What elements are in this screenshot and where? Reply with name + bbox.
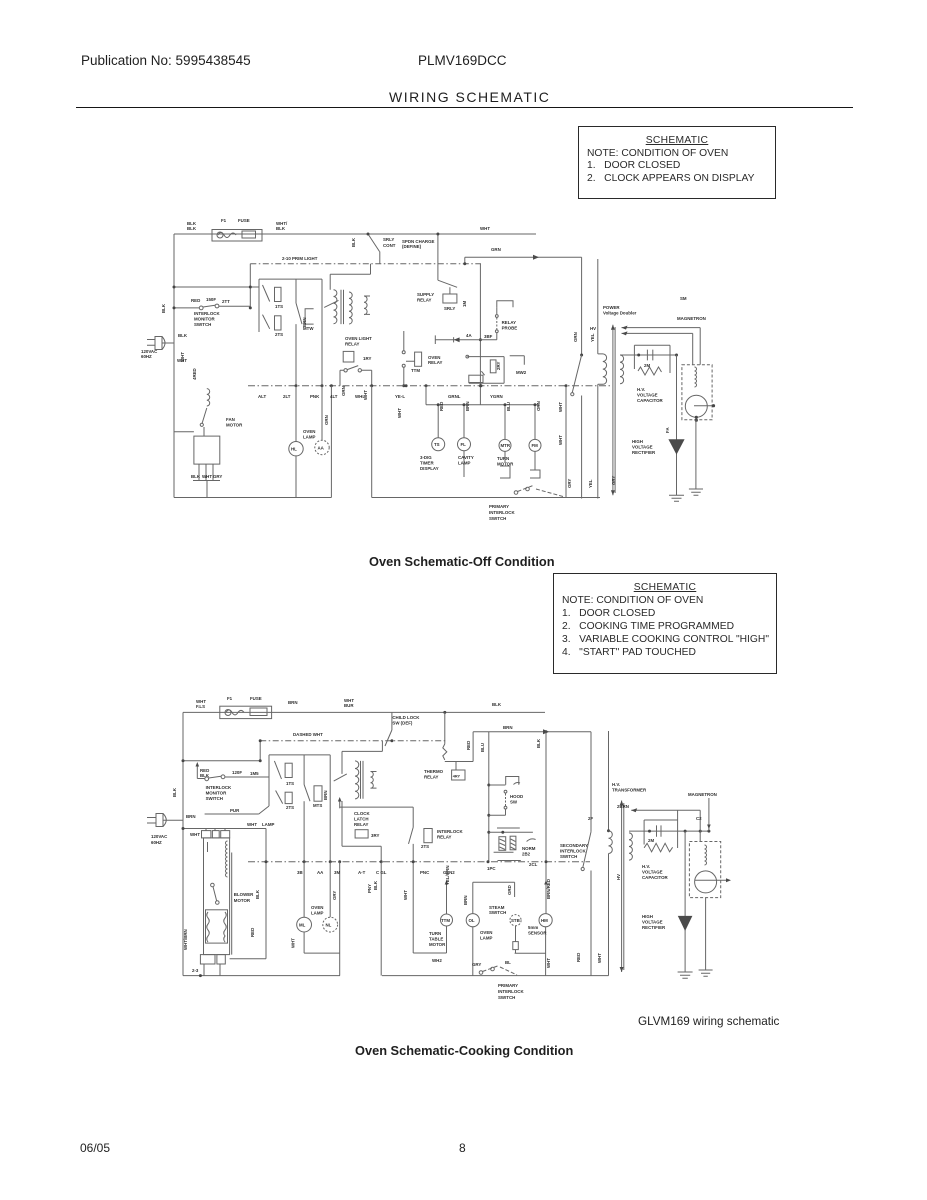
svg-text:OVEN: OVEN	[480, 930, 492, 935]
svg-text:HM: HM	[541, 918, 548, 923]
svg-text:BUR: BUR	[344, 703, 354, 708]
svg-text:INTERLOCK: INTERLOCK	[206, 785, 232, 790]
svg-text:WHT: WHT	[546, 958, 551, 968]
svg-text:RELAY: RELAY	[502, 320, 517, 325]
svg-text:HIGH: HIGH	[632, 439, 643, 444]
svg-text:TS: TS	[434, 442, 440, 447]
svg-text:ML: ML	[299, 923, 306, 928]
svg-text:TURN: TURN	[497, 456, 509, 461]
svg-text:2B2: 2B2	[522, 852, 531, 857]
svg-text:Voltage Doubler: Voltage Doubler	[603, 311, 637, 316]
svg-text:RELAY: RELAY	[437, 835, 452, 840]
svg-text:(DEFINE): (DEFINE)	[402, 244, 422, 249]
svg-text:MW2: MW2	[516, 370, 527, 375]
svg-text:2BRN: 2BRN	[617, 804, 629, 809]
svg-text:MONITOR: MONITOR	[194, 317, 215, 322]
svg-text:HIGH: HIGH	[642, 914, 653, 919]
svg-text:GRD: GRD	[507, 885, 512, 895]
svg-text:OVEN: OVEN	[303, 429, 315, 434]
svg-text:LAMP: LAMP	[303, 435, 316, 440]
svg-text:MAGNETRON: MAGNETRON	[688, 792, 717, 797]
svg-text:INTERLOCK: INTERLOCK	[498, 989, 524, 994]
svg-text:TTM: TTM	[411, 368, 420, 373]
svg-text:TTM: TTM	[441, 918, 450, 923]
svg-text:3RY: 3RY	[371, 833, 379, 838]
svg-text:CONT: CONT	[383, 243, 396, 248]
svg-text:MOTOR: MOTOR	[429, 942, 446, 947]
svg-text:SWITCH: SWITCH	[498, 995, 515, 1000]
svg-text:RED: RED	[466, 741, 471, 750]
svg-text:4LT: 4LT	[330, 394, 338, 399]
svg-text:BLOWER: BLOWER	[234, 892, 254, 897]
svg-text:RECTIFIER: RECTIFIER	[632, 450, 656, 455]
svg-text:YE-L: YE-L	[395, 394, 405, 399]
svg-text:SWITCH: SWITCH	[489, 516, 506, 521]
svg-text:4A: 4A	[466, 333, 472, 338]
svg-text:CAPACITOR: CAPACITOR	[642, 875, 669, 880]
svg-text:RED: RED	[576, 953, 581, 962]
svg-text:WHT: WHT	[291, 938, 296, 948]
svg-text:GRN: GRN	[341, 386, 346, 396]
svg-text:2RY: 2RY	[496, 362, 501, 370]
svg-text:2TT: 2TT	[222, 299, 230, 304]
svg-text:ORN: ORN	[536, 401, 541, 411]
svg-text:FAN: FAN	[226, 417, 235, 422]
svg-text:INTERLOCK: INTERLOCK	[489, 510, 515, 515]
svg-text:LAMP: LAMP	[262, 822, 275, 827]
svg-text:CLOCK: CLOCK	[354, 811, 370, 816]
svg-text:SWITCH: SWITCH	[560, 854, 577, 859]
svg-text:TURN: TURN	[429, 931, 441, 936]
svg-text:BLK: BLK	[191, 474, 201, 479]
svg-text:WH2: WH2	[432, 958, 442, 963]
svg-text:MOTOR: MOTOR	[234, 898, 251, 903]
svg-text:LATCH: LATCH	[354, 817, 369, 822]
svg-text:1RY: 1RY	[363, 356, 371, 361]
svg-text:CAPACITOR: CAPACITOR	[637, 398, 664, 403]
svg-text:FM: FM	[532, 443, 539, 448]
svg-text:POWER: POWER	[603, 305, 620, 310]
svg-text:MTS: MTS	[313, 803, 322, 808]
svg-text:SENSOR: SENSOR	[528, 931, 547, 936]
svg-text:RELAY: RELAY	[417, 298, 432, 303]
svg-text:CHILD LOCK: CHILD LOCK	[392, 715, 420, 720]
svg-text:F1: F1	[221, 218, 227, 223]
svg-text:PRIMARY: PRIMARY	[498, 983, 518, 988]
svg-text:3M: 3M	[334, 870, 340, 875]
svg-text:INTERLOCK: INTERLOCK	[437, 829, 463, 834]
svg-text:VOLTAGE: VOLTAGE	[632, 445, 653, 450]
svg-text:WHT: WHT	[202, 474, 212, 479]
svg-text:SWITCH: SWITCH	[206, 796, 223, 801]
svg-text:BLK: BLK	[161, 303, 166, 313]
svg-text:120VAC: 120VAC	[151, 834, 168, 839]
svg-text:SRLY: SRLY	[444, 306, 455, 311]
svg-text:H.V.: H.V.	[637, 387, 645, 392]
svg-text:RECTIFIER: RECTIFIER	[642, 925, 666, 930]
svg-text:CAVITY: CAVITY	[458, 455, 474, 460]
svg-text:2-3: 2-3	[192, 968, 199, 973]
svg-text:SWITCH: SWITCH	[489, 910, 506, 915]
svg-text:RED: RED	[191, 298, 200, 303]
svg-text:3BF: 3BF	[484, 334, 493, 339]
svg-text:VOLTAGE: VOLTAGE	[642, 870, 663, 875]
svg-text:GRY: GRY	[332, 891, 337, 900]
svg-text:SW (DEF): SW (DEF)	[392, 721, 413, 726]
svg-text:BRN: BRN	[186, 814, 196, 819]
svg-text:FUSE: FUSE	[250, 696, 262, 701]
svg-text:PNY: PNY	[367, 884, 372, 893]
svg-text:GRN: GRN	[324, 415, 329, 425]
svg-text:2F: 2F	[588, 816, 593, 821]
svg-text:MTR: MTR	[501, 443, 511, 448]
svg-text:WHL: WHL	[355, 394, 365, 399]
svg-text:H.V.: H.V.	[612, 782, 620, 787]
svg-text:2CL: 2CL	[529, 862, 538, 867]
svg-text:120F: 120F	[232, 770, 242, 775]
svg-text:MAGNETRON: MAGNETRON	[677, 316, 706, 321]
svg-text:BLU: BLU	[480, 743, 485, 752]
svg-text:5mm: 5mm	[528, 925, 538, 930]
svg-text:60HZ: 60HZ	[141, 354, 152, 359]
svg-text:TIMER: TIMER	[420, 461, 434, 466]
svg-text:YEL: YEL	[590, 333, 595, 342]
svg-text:SECONDARY: SECONDARY	[560, 843, 588, 848]
svg-text:FA: FA	[665, 427, 670, 433]
svg-text:1PC: 1PC	[487, 866, 496, 871]
svg-text:BLK: BLK	[255, 889, 260, 899]
svg-text:RELAY: RELAY	[428, 360, 443, 365]
svg-text:HV: HV	[616, 874, 621, 880]
svg-text:BLK: BLK	[178, 333, 188, 338]
svg-text:STB: STB	[511, 918, 520, 923]
svg-text:WHT: WHT	[597, 953, 602, 963]
svg-text:BLK: BLK	[351, 237, 356, 247]
svg-text:INTERLOCK: INTERLOCK	[560, 849, 586, 854]
svg-text:GRN: GRN	[491, 247, 501, 252]
svg-text:SWITCH: SWITCH	[194, 322, 211, 327]
svg-text:RELAY: RELAY	[354, 822, 369, 827]
svg-text:OVEN LIGHT: OVEN LIGHT	[345, 336, 372, 341]
svg-text:NL: NL	[326, 923, 332, 928]
svg-text:VOLTAGE: VOLTAGE	[642, 920, 663, 925]
svg-text:GRY: GRY	[213, 474, 222, 479]
svg-text:2TS: 2TS	[421, 844, 429, 849]
svg-text:BRN: BRN	[302, 317, 307, 327]
svg-text:C2: C2	[696, 816, 702, 821]
svg-text:2-10 PRIM LIGHT: 2-10 PRIM LIGHT	[282, 256, 318, 261]
svg-text:WHT: WHT	[558, 402, 563, 412]
svg-text:NORM: NORM	[522, 846, 536, 851]
svg-text:BLK: BLK	[536, 738, 541, 748]
svg-text:FL: FL	[461, 442, 467, 447]
svg-text:WHT: WHT	[480, 226, 490, 231]
svg-text:3-DIG: 3-DIG	[420, 455, 432, 460]
svg-text:BLK: BLK	[276, 226, 286, 231]
svg-text:1M5: 1M5	[250, 771, 259, 776]
svg-text:MONITOR: MONITOR	[206, 791, 227, 796]
svg-text:BRN/RED: BRN/RED	[546, 879, 551, 899]
svg-text:FUSE: FUSE	[238, 218, 250, 223]
svg-text:OL: OL	[469, 918, 475, 923]
svg-text:SM: SM	[680, 296, 687, 301]
svg-text:WHT: WHT	[190, 832, 200, 837]
svg-text:A-T: A-T	[358, 870, 366, 875]
svg-text:SRLY: SRLY	[383, 237, 394, 242]
svg-text:WHT: WHT	[558, 435, 563, 445]
svg-text:PUR: PUR	[230, 808, 240, 813]
svg-text:60HZ: 60HZ	[151, 840, 162, 845]
svg-text:LAMP: LAMP	[480, 936, 493, 941]
svg-text:HV: HV	[590, 326, 596, 331]
svg-text:BRN: BRN	[463, 895, 468, 905]
svg-text:1TS: 1TS	[275, 304, 283, 309]
svg-text:AA: AA	[318, 446, 325, 451]
svg-text:VOLTAGE: VOLTAGE	[637, 393, 658, 398]
svg-text:TRANSFORMER: TRANSFORMER	[612, 788, 647, 793]
svg-text:BRN: BRN	[323, 790, 328, 800]
svg-text:4RED: 4RED	[192, 368, 197, 380]
svg-text:PRIMARY: PRIMARY	[489, 504, 509, 509]
svg-text:HOOD: HOOD	[510, 794, 523, 799]
svg-text:WHT: WHT	[247, 822, 257, 827]
svg-text:WHT: WHT	[403, 890, 408, 900]
svg-text:BLU: BLU	[506, 402, 511, 411]
svg-text:BRN: BRN	[503, 725, 513, 730]
svg-text:TABLE: TABLE	[429, 937, 443, 942]
svg-text:RELAY: RELAY	[424, 775, 439, 780]
svg-text:2TS: 2TS	[286, 805, 294, 810]
svg-text:F1: F1	[227, 696, 233, 701]
svg-text:ALT: ALT	[258, 394, 267, 399]
svg-text:LAMP: LAMP	[458, 461, 471, 466]
svg-text:AA: AA	[317, 870, 324, 875]
svg-text:LAMP: LAMP	[311, 911, 324, 916]
svg-text:MOTOR: MOTOR	[226, 423, 243, 428]
svg-text:WHT: WHT	[397, 408, 402, 418]
svg-text:WHT: WHT	[180, 352, 185, 362]
svg-text:GRN: GRN	[573, 332, 578, 342]
svg-text:4RY: 4RY	[453, 775, 461, 779]
svg-text:1TS: 1TS	[286, 781, 294, 786]
svg-text:SUPPLY: SUPPLY	[417, 292, 434, 297]
svg-text:HL: HL	[291, 447, 297, 452]
svg-text:BLK: BLK	[492, 702, 502, 707]
svg-text:RED: RED	[250, 928, 255, 937]
svg-text:F.LS: F.LS	[196, 704, 205, 709]
svg-text:1M: 1M	[462, 301, 467, 307]
svg-text:YEL/GRN: YEL/GRN	[445, 865, 450, 885]
svg-text:BL: BL	[505, 960, 511, 965]
svg-text:PNK: PNK	[310, 394, 320, 399]
svg-text:2LT: 2LT	[283, 394, 291, 399]
svg-text:150F: 150F	[206, 297, 216, 302]
svg-text:2M: 2M	[644, 363, 650, 368]
svg-text:YEL: YEL	[588, 479, 593, 488]
svg-text:DASHED WHT: DASHED WHT	[293, 732, 323, 737]
svg-text:BRN: BRN	[288, 700, 298, 705]
svg-text:OVEN: OVEN	[311, 905, 323, 910]
svg-text:BRN: BRN	[465, 401, 470, 411]
svg-text:PROBE: PROBE	[502, 326, 518, 331]
svg-text:GRY: GRY	[611, 476, 616, 485]
svg-text:WHT/BRN: WHT/BRN	[183, 929, 188, 950]
svg-text:BLK: BLK	[172, 787, 177, 797]
svg-text:H.V.: H.V.	[642, 864, 650, 869]
svg-text:INTERLOCK: INTERLOCK	[194, 311, 220, 316]
svg-text:BLK: BLK	[373, 880, 378, 890]
svg-text:2M: 2M	[648, 838, 654, 843]
svg-text:GRNL: GRNL	[448, 394, 461, 399]
svg-text:SW: SW	[510, 800, 518, 805]
svg-text:BLK: BLK	[187, 226, 197, 231]
svg-text:GRY: GRY	[472, 962, 481, 967]
svg-text:YGRN: YGRN	[490, 394, 503, 399]
svg-text:3B: 3B	[297, 870, 303, 875]
svg-text:RELAY: RELAY	[345, 342, 360, 347]
svg-text:2TS: 2TS	[275, 332, 283, 337]
svg-text:DISPLAY: DISPLAY	[420, 466, 439, 471]
svg-text:THERMO: THERMO	[424, 769, 444, 774]
svg-text:PNC: PNC	[420, 870, 430, 875]
svg-text:C GL: C GL	[376, 870, 387, 875]
svg-text:RED: RED	[439, 402, 444, 411]
svg-text:GRY: GRY	[567, 479, 572, 488]
